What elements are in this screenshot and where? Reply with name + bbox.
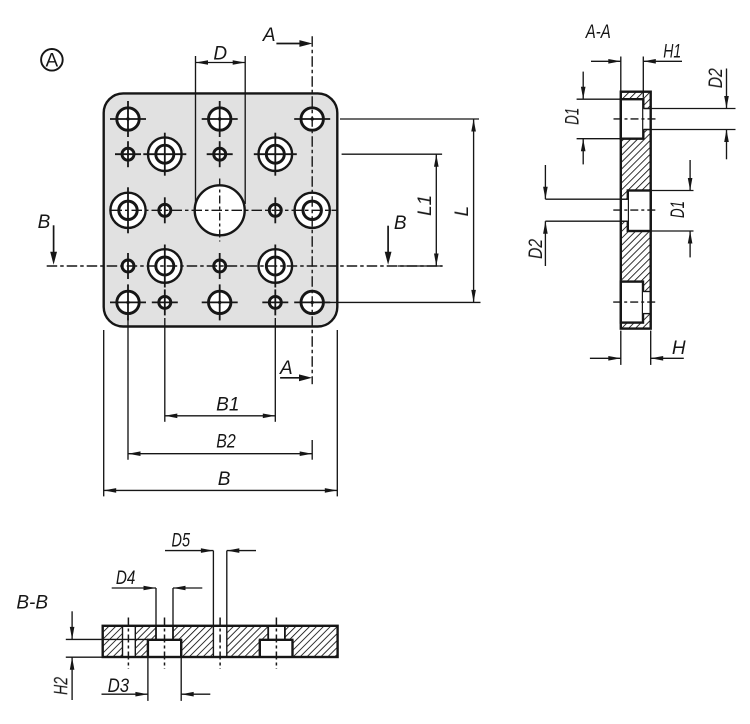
label D2 (right) xyxy=(706,68,727,88)
section A-A: bottom through hole xyxy=(643,292,651,314)
dimension H extension lines xyxy=(621,331,651,365)
svg-text:D5: D5 xyxy=(172,531,191,552)
dimension D1 line with outside arrows (right) xyxy=(688,160,693,257)
dimension D5 line with outside arrows xyxy=(165,548,256,553)
dimension H2 line with outside arrows xyxy=(70,611,75,700)
hole row5 col4 (small) xyxy=(262,289,288,315)
label B-B (section title) xyxy=(16,592,48,613)
hole row4 col1 (small) xyxy=(122,253,134,279)
dimension D4 extension lines xyxy=(156,588,173,625)
counterbore hole row4 col4 xyxy=(259,245,293,288)
section A-A: middle through hole xyxy=(621,199,628,221)
dimension D2 extension lines (top hole) xyxy=(644,109,735,130)
svg-text:D1: D1 xyxy=(668,201,689,218)
label L xyxy=(452,206,473,217)
svg-text:H: H xyxy=(672,338,686,359)
label B (bottom dimension) xyxy=(218,469,231,490)
section B-B: col2 counterbore cavity xyxy=(147,640,182,657)
hole row2 col1 (small) xyxy=(115,141,141,167)
dimension H1 line with outside arrows xyxy=(591,59,682,64)
section B-B: hole centerlines dash-dot xyxy=(128,618,276,670)
svg-text:B1: B1 xyxy=(216,394,239,415)
label A-A (section title) xyxy=(585,22,611,43)
dimension D line with arrows xyxy=(196,60,246,65)
label H1 xyxy=(663,41,681,62)
section B-B: col4 counterbore cavity xyxy=(259,640,294,657)
central hole D (large) xyxy=(195,179,245,242)
hole row5 col1 (medium) xyxy=(110,284,146,320)
section A-A: top counterbore cavity xyxy=(621,99,644,139)
counterbore hole row2 col4 xyxy=(254,133,297,176)
dimension B1 line with arrows xyxy=(165,414,275,419)
dimension B2 line with arrows xyxy=(128,451,312,456)
label B (right) xyxy=(394,213,407,234)
large counterbore row3 col5 xyxy=(295,193,330,228)
section B-B: col2 through hole xyxy=(156,626,173,640)
hole row1 col5 (medium) xyxy=(294,108,330,130)
svg-text:D3: D3 xyxy=(108,676,130,697)
front view: plate outline (rounded square, grey) xyxy=(104,93,338,326)
counterbore hole row4 col2 xyxy=(148,245,182,288)
section arrow B (right) xyxy=(385,226,392,265)
hole row1 col1 (medium) xyxy=(110,101,146,137)
centerline: row3 horizontal dash-dot xyxy=(112,209,339,211)
label D3 xyxy=(108,676,130,697)
svg-text:D4: D4 xyxy=(116,568,136,589)
dimension L1 line with arrows xyxy=(434,154,439,266)
label D1 (left) xyxy=(563,108,584,125)
centerline: section A-A vertical dash-dot through col5 xyxy=(311,36,313,384)
section A-A: hole centerlines dash-dot xyxy=(613,119,658,302)
label D2 (left) xyxy=(526,239,547,259)
dimension L line with arrows xyxy=(471,119,476,302)
hole row5 col2 (small) xyxy=(152,289,178,315)
svg-text:B2: B2 xyxy=(216,432,236,453)
hole row3 col2 (small) xyxy=(159,197,171,223)
label H2 xyxy=(51,677,72,695)
dimension B1 extension lines xyxy=(165,318,275,422)
svg-text:A: A xyxy=(46,50,59,71)
label B1 xyxy=(216,394,239,415)
label D1 (right) xyxy=(668,201,689,218)
label D4 xyxy=(116,568,136,589)
counterbore hole row2 col2 xyxy=(143,133,186,176)
hole row1 col3 (medium) xyxy=(202,101,238,137)
label D xyxy=(213,43,227,64)
section arrow B (left) xyxy=(50,225,57,264)
section A-A: plate outline xyxy=(621,92,651,329)
dimension D3 extension lines xyxy=(148,658,181,701)
section A-A: middle counterbore cavity xyxy=(628,191,651,232)
label D5 xyxy=(172,531,191,552)
label B2 xyxy=(216,432,236,453)
section B-B: col4 through hole xyxy=(268,626,285,640)
dimension L1/L extension lines (right) xyxy=(324,119,481,302)
hole row5 col3 (medium) xyxy=(202,284,238,320)
label B (left) xyxy=(38,212,51,233)
dimension D5 extension lines xyxy=(213,551,226,625)
section B-B: col1 through hole xyxy=(123,626,136,657)
svg-text:A: A xyxy=(262,25,276,46)
dimension B line with arrows xyxy=(104,488,338,493)
dimension D extension lines (tangent to central hole) xyxy=(196,56,246,204)
hole row4 col3 (small) xyxy=(214,253,226,279)
svg-text:L: L xyxy=(452,206,473,217)
dimension D4 line with outside arrows xyxy=(112,586,203,591)
label A (bottom) xyxy=(279,358,293,379)
dimension D1 extension lines (middle counterbore) xyxy=(652,191,694,232)
svg-text:D2: D2 xyxy=(706,68,727,88)
section A-A: top through hole xyxy=(643,109,650,130)
dimension D2 line with outside arrows (left) xyxy=(543,165,548,266)
hole row3 col4 (small) xyxy=(269,197,281,223)
dimension D1 extension lines (top counterbore) xyxy=(577,99,620,139)
dimension B2 extension lines xyxy=(128,318,312,460)
section A-A: hatched plate body xyxy=(621,92,651,329)
dimension D2 line with outside arrows (right) xyxy=(724,69,729,160)
section arrow A (top) xyxy=(276,40,312,47)
label A (top) xyxy=(262,25,276,46)
dimension H2 extension lines xyxy=(66,639,148,657)
section B-B: plate outline xyxy=(103,626,338,657)
hole row5 col5 (medium) xyxy=(294,291,330,313)
dimension D1 line with outside arrows (left) xyxy=(581,72,586,165)
svg-text:H1: H1 xyxy=(663,41,681,62)
svg-text:B: B xyxy=(38,212,51,233)
label H xyxy=(672,338,686,359)
dimension H1 extension lines xyxy=(621,57,644,98)
svg-text:L1: L1 xyxy=(415,195,436,216)
svg-text:A-A: A-A xyxy=(585,22,611,43)
large counterbore row3 col1 xyxy=(110,187,145,233)
section arrow A (bottom) xyxy=(280,374,312,381)
view label: circled A datum xyxy=(41,49,63,71)
svg-text:B: B xyxy=(218,469,231,490)
svg-text:H2: H2 xyxy=(51,677,72,695)
svg-text:D2: D2 xyxy=(526,239,547,259)
dimension D2 extension lines (middle hole) xyxy=(545,199,627,221)
dimension B extension lines xyxy=(104,330,338,496)
hole row2 col3 (small) xyxy=(207,141,233,167)
svg-text:D1: D1 xyxy=(563,108,584,125)
svg-text:B: B xyxy=(394,213,407,234)
svg-text:D: D xyxy=(213,43,227,64)
svg-text:A: A xyxy=(279,358,293,379)
section B-B: hatched plate body xyxy=(103,626,338,657)
svg-text:B-B: B-B xyxy=(16,592,48,613)
section A-A: bottom counterbore cavity xyxy=(621,282,643,323)
dimension H line with outside arrows xyxy=(590,356,684,361)
dimension D3 line with outside arrows xyxy=(102,692,211,697)
label L1 xyxy=(415,195,436,216)
section B-B: col3 through slot xyxy=(213,626,226,657)
centerline: row4 / section B-B horizontal dash-dot xyxy=(47,265,443,267)
